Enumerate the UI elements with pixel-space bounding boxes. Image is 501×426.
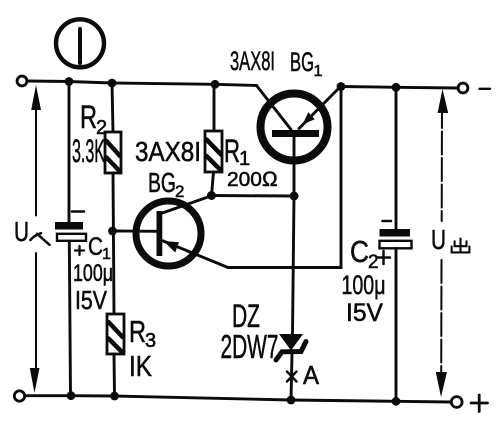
resistor R2 xyxy=(72,83,121,173)
svg-text:3: 3 xyxy=(145,330,156,352)
svg-text:A: A xyxy=(303,360,320,390)
wire BG2 emitter to output rail xyxy=(228,87,341,268)
svg-text:BG: BG xyxy=(290,47,314,77)
label DZ 2DW7 xyxy=(221,298,279,365)
node C2 top xyxy=(392,83,401,92)
node BG1 emitter rail xyxy=(337,82,346,91)
node DZ bottom xyxy=(287,396,296,405)
svg-text:I5V: I5V xyxy=(75,285,108,315)
terminal output top-right xyxy=(458,83,468,93)
transistor BG1 xyxy=(257,86,341,197)
svg-text:U: U xyxy=(431,224,446,255)
terminal input top-left xyxy=(17,76,27,86)
svg-text:I5V: I5V xyxy=(346,299,383,327)
node divider-BG2 base xyxy=(108,227,117,236)
wire base node horizontal xyxy=(212,194,295,197)
zener diode DZ xyxy=(276,196,306,400)
voltage arrow U_in xyxy=(30,85,41,393)
svg-text:100μ: 100μ xyxy=(73,260,113,287)
svg-text:3AX8I: 3AX8I xyxy=(135,136,201,167)
transistor BG2 xyxy=(117,196,228,268)
svg-text:200Ω: 200Ω xyxy=(227,168,278,191)
wire bottom rail xyxy=(25,396,451,402)
svg-text:3.3K: 3.3K xyxy=(72,133,105,169)
node C1 bottom xyxy=(67,391,76,400)
svg-text:1: 1 xyxy=(239,148,250,170)
svg-text:C: C xyxy=(88,233,103,261)
resistor R1 xyxy=(205,84,278,195)
label U_in xyxy=(14,216,29,247)
figure number marker 1 xyxy=(56,19,104,67)
resistor R3 xyxy=(107,314,156,396)
label 3AX8I BG1 xyxy=(230,46,323,80)
node C2 bottom xyxy=(392,397,401,406)
svg-text:U: U xyxy=(14,216,29,247)
wire divider column xyxy=(113,173,114,314)
node BG1 base xyxy=(290,192,299,201)
svg-text:BG: BG xyxy=(148,167,176,198)
node C1 top xyxy=(65,77,74,86)
node R3 bottom xyxy=(110,392,119,401)
plus sign bottom-right xyxy=(471,395,488,412)
terminal bottom-right xyxy=(451,397,462,408)
node R2 top xyxy=(108,79,117,88)
wire top rail input xyxy=(27,81,257,86)
wire top rail output xyxy=(341,87,458,89)
capacitor C2 xyxy=(342,87,412,401)
node R1-BG2 collector xyxy=(207,191,216,200)
svg-text:C: C xyxy=(350,234,369,269)
svg-text:100μ: 100μ xyxy=(342,270,386,300)
terminal bottom-left xyxy=(14,391,24,401)
svg-text:2: 2 xyxy=(175,182,184,201)
svg-text:3AX8I: 3AX8I xyxy=(230,46,275,76)
node R1 top xyxy=(211,80,220,89)
capacitor C1 xyxy=(55,82,113,396)
minus sign top-right xyxy=(480,88,491,90)
svg-text:R: R xyxy=(80,99,97,135)
svg-text:IK: IK xyxy=(129,351,153,383)
label U_out xyxy=(431,224,469,255)
label 3AX8I BG2 xyxy=(135,136,201,201)
svg-text:R: R xyxy=(224,133,240,169)
voltage arrow U_out xyxy=(436,89,448,397)
svg-text:1: 1 xyxy=(314,63,323,80)
svg-text:R: R xyxy=(129,314,146,349)
svg-text:2DW7: 2DW7 xyxy=(221,328,279,365)
